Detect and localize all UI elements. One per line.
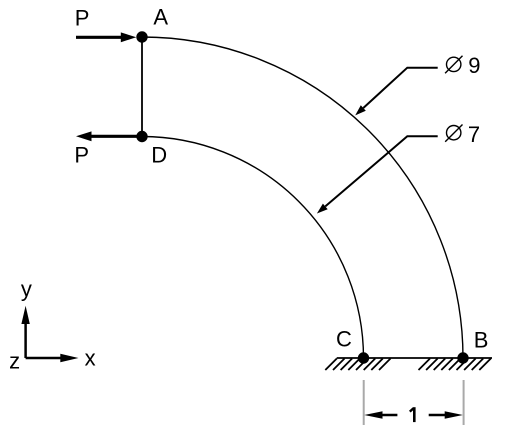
coordinate axis y (21, 306, 29, 358)
diameter symbol for 7 (445, 125, 462, 142)
svg-text:7: 7 (468, 122, 480, 147)
svg-text:x: x (85, 346, 96, 371)
node C (358, 352, 369, 363)
node B (457, 352, 468, 363)
diameter symbol for 9 (445, 56, 462, 74)
node A (136, 31, 147, 42)
wire A-D vertical link (141, 37, 143, 137)
svg-text:P: P (75, 6, 90, 31)
svg-text:z: z (9, 349, 20, 374)
svg-text:y: y (21, 277, 32, 302)
ground hatching left (under C) (325, 359, 390, 371)
svg-text:D: D (151, 142, 167, 167)
dimension arrow left (364, 411, 397, 418)
dimension extension line at B (463, 380, 465, 425)
force P arrow at A (76, 32, 136, 42)
ground hatching right (under B) (419, 359, 491, 371)
outer arc (radius 9 rod centerline, A to B) (142, 37, 463, 358)
leader line for diameter 9 (355, 68, 438, 116)
svg-text:C: C (336, 327, 352, 352)
dimension extension line at C (363, 380, 365, 425)
svg-text:9: 9 (468, 53, 480, 78)
svg-text:B: B (474, 327, 489, 352)
leader line for diameter 7 (317, 136, 438, 213)
svg-text:P: P (74, 143, 89, 168)
ground line C-B (337, 357, 492, 359)
node D (136, 131, 147, 142)
coordinate axis x (26, 354, 79, 362)
dimension label 1 (413, 407, 416, 422)
inner arc (radius 7 rod centerline, D to C) (142, 137, 364, 359)
dimension arrow right (429, 411, 463, 418)
svg-text:A: A (153, 5, 168, 30)
force P arrow at D (76, 131, 142, 141)
